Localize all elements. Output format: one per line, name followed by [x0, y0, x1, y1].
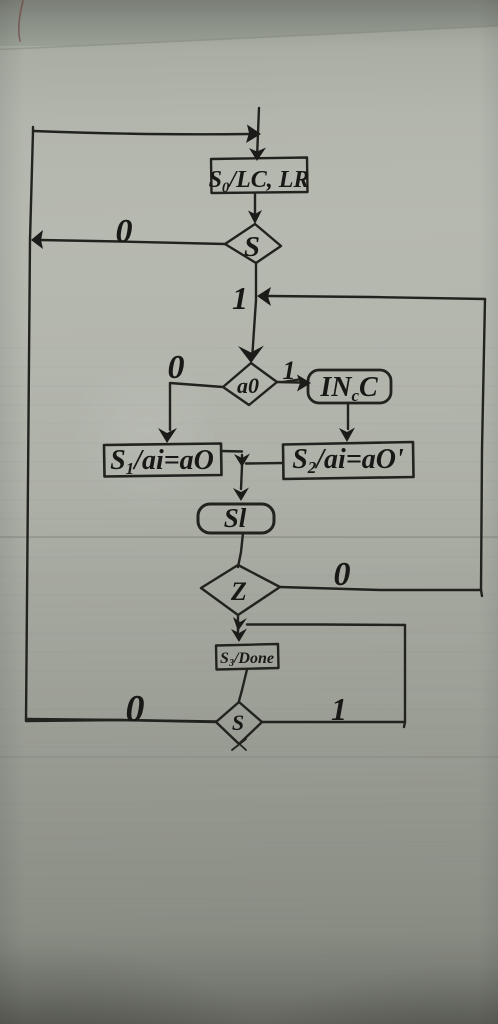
wire feedback right vertical [481, 299, 485, 596]
overshoot cross at bottom vertex [232, 738, 246, 750]
arrowhead left into left rail (S=0) [31, 230, 43, 249]
arrowhead down into S1 [158, 428, 177, 443]
wire a0=0 to S1 [170, 383, 223, 430]
decision diamond a0 [223, 363, 277, 405]
wire S=0 bottom to left rail [26, 719, 216, 722]
decision diamond S [225, 224, 281, 263]
wire loop right vertical [404, 625, 405, 727]
arrowhead down into S3 (double) [231, 629, 247, 643]
wire a0=1 to INcC [277, 381, 300, 384]
wire bottom rail [26, 720, 216, 722]
wire Z=1 down to S3 [237, 615, 239, 632]
rounded box Sl [198, 504, 274, 533]
wire top rail [33, 131, 250, 134]
arrowhead down into S0 [249, 148, 266, 162]
arrowhead down at merge junction [234, 454, 250, 468]
wire S0 to decision S [254, 193, 256, 221]
decision diamond S bottom [216, 702, 262, 744]
wire Z=0 horizontal [280, 587, 481, 590]
paper fold edge [0, 26, 498, 50]
wire Sl to Z [238, 533, 243, 567]
state box S2 [283, 442, 414, 479]
arrowhead left feedback into S wire [257, 287, 271, 306]
wire loop horizontal into S3 junction [247, 623, 405, 626]
arrowhead big down into a0 [238, 346, 264, 364]
arrowhead down into Sl [233, 488, 249, 502]
arrowhead down into S2 [339, 428, 355, 443]
wire S to a0 [252, 263, 256, 360]
wire merge from S2 [246, 462, 283, 465]
wire entry vertical into S0 [257, 108, 259, 158]
arrowhead down into decision S [248, 210, 262, 224]
arrowhead right into INcC [297, 375, 311, 392]
red fiber mark [19, 1, 23, 41]
state box S0 [211, 158, 308, 194]
arrowhead right into entry node [246, 125, 261, 144]
wire left rail [26, 127, 33, 721]
state box S1 [104, 444, 222, 477]
wire S=0 to left rail [40, 240, 225, 244]
wire INcC to S2 [347, 403, 349, 429]
label 1 underline near a0 [283, 379, 302, 382]
wire feedback from Z=0 top horizontal [268, 296, 485, 299]
wire merge from S1 [221, 450, 242, 453]
arrowhead small loop merge [233, 617, 247, 631]
wire S3 to decision S bottom [239, 670, 247, 702]
wire loop bottom from S=1 [262, 721, 405, 723]
decision diamond Z [201, 565, 280, 615]
state box S3 [216, 644, 279, 670]
process box INcC [308, 370, 391, 403]
wire merge down to Sl [241, 455, 242, 489]
